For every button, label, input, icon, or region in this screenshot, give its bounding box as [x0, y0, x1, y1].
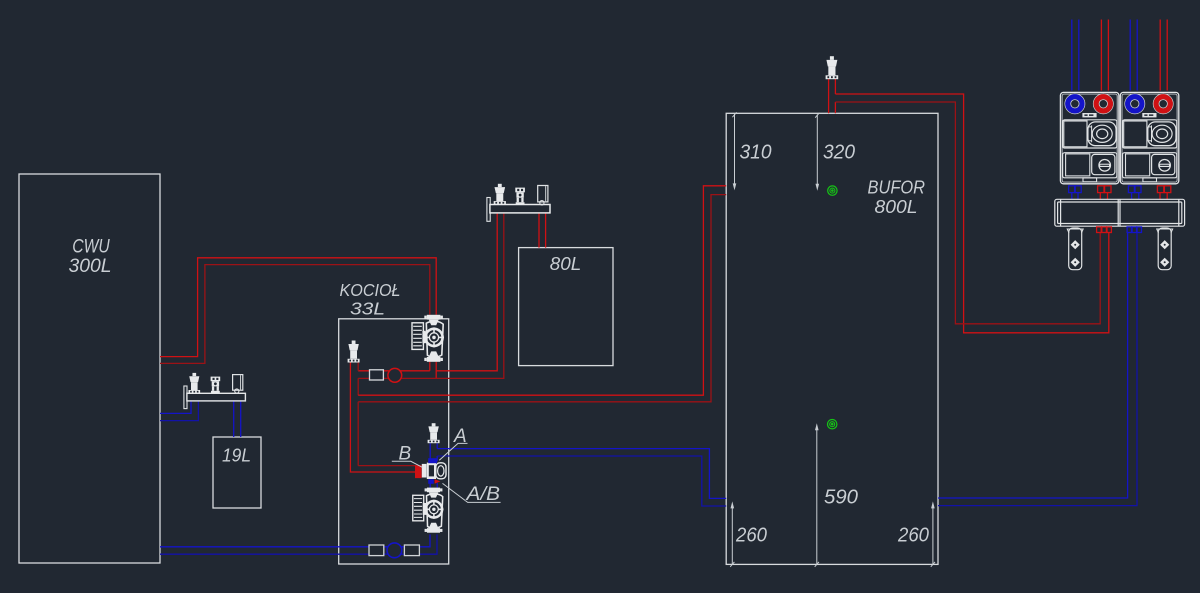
- boiler circulating pump (top): [412, 315, 444, 362]
- svg-text:800L: 800L: [875, 196, 918, 217]
- pump group module 2: [1120, 92, 1179, 183]
- pipe red heating circuit 1 risers: [1101, 20, 1108, 91]
- module 1 red union fitting: [1098, 186, 1111, 193]
- pipe red boiler to BUFOR left (wall C): [358, 186, 726, 395]
- strainer valve in boiler: [348, 341, 360, 363]
- svg-text:A/B: A/B: [465, 484, 500, 505]
- manifold red supply fitting: [1097, 227, 1112, 233]
- svg-text:320: 320: [823, 141, 855, 163]
- safety valve on CWU manifold: [188, 373, 200, 394]
- svg-text:B: B: [399, 444, 412, 465]
- dimension 260 right line: [931, 501, 935, 566]
- label CWU 300L: [69, 237, 112, 278]
- pipe red boiler riser to 3-way valve (right wall segments): [358, 362, 415, 465]
- module 2 red union fitting: [1157, 186, 1170, 193]
- pipe red boiler to 80L manifold (wall A): [358, 213, 497, 371]
- tank CWU 300L outline: [19, 174, 160, 563]
- tank 80L outline: [519, 248, 613, 366]
- boiler circulating pump (bottom): [413, 488, 444, 533]
- pipe red boiler riser to 3-way valve (left wall): [350, 362, 415, 472]
- svg-text:A: A: [453, 426, 467, 447]
- blue pump circle on bottom pipe: [387, 543, 402, 558]
- float vent on 80L manifold: [515, 188, 525, 205]
- pipe blue 3-way valve A to BUFOR left (wall 1): [437, 449, 726, 499]
- pipe stubs pump modules to manifold bar: [1072, 193, 1139, 200]
- svg-text:300L: 300L: [69, 256, 112, 277]
- tank KOCIOL 33L outline: [339, 319, 449, 564]
- dimension 260 left line: [730, 501, 734, 566]
- green sensor lower in BUFOR: [828, 420, 837, 429]
- shut-off valve above 3-way valve: [428, 423, 440, 443]
- pipe blue CWU to safety manifold (top wall): [160, 401, 191, 413]
- 80L safety manifold flange: [487, 198, 490, 222]
- manifold bar of pump station: [1055, 199, 1185, 226]
- manifold blue return fitting: [1127, 227, 1141, 233]
- dimension 310 line: [732, 112, 736, 190]
- svg-text:310: 310: [740, 141, 772, 163]
- pipe blue bottom CWU to boiler pump (bottom wall): [160, 534, 437, 554]
- pipe blue heating circuit 1 risers: [1072, 20, 1079, 91]
- safety group manifold (CWU) flange: [184, 386, 187, 409]
- svg-text:KOCIOŁ: KOCIOŁ: [340, 280, 401, 300]
- safety group manifold (CWU) bar: [187, 393, 246, 401]
- pump group module 1: [1060, 92, 1119, 183]
- 3-way valve A/B port markers: [428, 479, 434, 484]
- expansion device on 80L manifold: [538, 186, 548, 205]
- svg-text:260: 260: [735, 524, 767, 546]
- svg-text:33L: 33L: [350, 299, 385, 319]
- pipe red 80L manifold to 80L tank: [539, 213, 546, 248]
- leader label A: [439, 443, 467, 460]
- pipe red boiler pump outlet stub: [430, 362, 436, 379]
- svg-text:590: 590: [824, 486, 858, 508]
- label BUFOR 800L: [868, 177, 926, 218]
- expansion device on CWU manifold: [233, 375, 243, 394]
- svg-text:80L: 80L: [550, 253, 582, 274]
- pipe blue pump manifold to BUFOR right (right wall): [938, 233, 1137, 506]
- pipe red BUFOR top vertical: [829, 79, 836, 113]
- svg-text:19L: 19L: [222, 446, 251, 466]
- air vent valve on BUFOR top: [826, 56, 839, 79]
- pipe blue safety manifold to 19L vessel: [234, 401, 241, 437]
- pipe blue 3-way valve A to BUFOR left (wall 2): [437, 456, 726, 506]
- pipe blue valve to 3-way valve vertical: [430, 443, 437, 461]
- pipe red heating circuit 2 risers: [1160, 20, 1167, 91]
- pipe blue pump manifold to BUFOR right (left wall): [938, 233, 1128, 498]
- pipe blue 3-way valve to lower pump stub: [430, 483, 437, 488]
- pipe red BUFOR top to pump manifold (inner wall): [835, 102, 1100, 324]
- pipe red CWU to boiler pump (bright wall): [160, 258, 436, 357]
- pipe blue heating circuit 2 risers: [1130, 20, 1137, 91]
- pipe red boiler to BUFOR left (wall D): [358, 195, 726, 402]
- pipe red boiler to 80L manifold (wall B): [358, 213, 504, 378]
- leader label A/B: [443, 483, 501, 502]
- wall bracket left: [1067, 228, 1083, 270]
- wall bracket right: [1157, 228, 1173, 270]
- pipe red BUFOR top to pump manifold (outer wall): [835, 94, 1108, 333]
- safety valve on 80L manifold: [494, 184, 506, 205]
- label KOCIOL 33L: [340, 280, 401, 319]
- dimension 590 line: [815, 423, 819, 567]
- green sensor upper in BUFOR: [828, 186, 837, 195]
- pipe blue CWU to safety manifold (bottom wall): [160, 401, 198, 421]
- 3-way valve A port marker (blue): [428, 458, 437, 463]
- tank BUFOR 800L outline: [726, 113, 938, 564]
- svg-text:CWU: CWU: [72, 237, 110, 258]
- float vent on CWU manifold: [211, 377, 221, 394]
- filter box on bottom blue pipe: [369, 545, 384, 556]
- check valve box on boiler supply: [370, 370, 384, 380]
- tank 19L outline: [213, 437, 261, 508]
- pipe red CWU to boiler pump (dark wall): [160, 265, 430, 364]
- module 1 blue union fitting: [1069, 186, 1082, 193]
- svg-text:BUFOR: BUFOR: [868, 177, 926, 198]
- 3-way mixing valve: red B port: [415, 465, 422, 478]
- dimension 320 line: [815, 113, 819, 191]
- 80L safety manifold bar: [490, 205, 550, 213]
- pipe blue bottom CWU to boiler pump (top wall): [160, 534, 430, 546]
- leader label B: [392, 461, 423, 467]
- valve box on bottom blue pipe: [404, 545, 419, 556]
- red pump circle on boiler supply: [388, 368, 402, 382]
- svg-text:260: 260: [897, 524, 929, 546]
- module 2 blue union fitting: [1128, 186, 1141, 193]
- 3-way mixing valve body: [422, 463, 446, 479]
